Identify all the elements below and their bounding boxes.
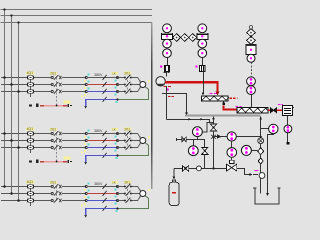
suction bottom line <box>167 120 214 123</box>
cooler box <box>283 105 295 115</box>
wire phase3 K2 to motor <box>131 143 140 148</box>
fuse F2 K3 <box>27 192 33 195</box>
valve stem <box>231 158 233 164</box>
stub FI-1 <box>251 150 257 152</box>
coupling diamond 1 <box>173 34 181 42</box>
stack stem P-A <box>167 58 169 66</box>
motor M K1 <box>140 82 146 88</box>
line TI-3 to tank <box>268 134 274 194</box>
open end tick <box>176 138 178 141</box>
label V-1 magenta <box>278 104 283 106</box>
node dots left K2 <box>85 132 87 148</box>
knot junction <box>211 135 216 139</box>
labels contactor K1 <box>112 71 131 75</box>
instrument FI-1 <box>241 145 251 155</box>
tank <box>253 188 280 204</box>
earth arrow K3 <box>84 215 87 218</box>
earth tags K2 <box>81 151 118 159</box>
wire phase2 K1 to node <box>66 84 86 86</box>
fan symbol <box>258 138 264 144</box>
breaker linkage dashed K2 <box>56 134 58 162</box>
elbow PA-1 down <box>197 137 199 140</box>
label breaker K1 <box>50 72 58 75</box>
wire phase3 K2 left segment <box>1 147 27 149</box>
earth tags K1 <box>81 95 118 103</box>
pipe red discharge <box>165 82 217 92</box>
wire phase1 K3 left segment <box>1 186 27 188</box>
bus riser L1 <box>4 10 6 187</box>
motor stack circle top P-B <box>198 24 207 33</box>
breaker pole 2 K2 <box>51 138 66 143</box>
contact 1 K2 <box>118 131 132 136</box>
node tags right K3 <box>115 188 117 204</box>
fuse link bar K3 <box>30 187 32 207</box>
wire phase2 K1 mid segment <box>34 84 51 86</box>
wire phase2 K1 to motor <box>131 84 139 86</box>
svg-text:2K1: 2K1 <box>124 127 130 131</box>
wire phase2 K3 to node <box>66 193 86 195</box>
breaker pole 3 K2 <box>51 145 66 150</box>
coil glyph left K1 <box>29 104 38 107</box>
accumulator ball <box>247 54 255 62</box>
node tags right K2 <box>115 135 117 151</box>
linkage dot K2 <box>56 161 58 163</box>
wire phase3 K1 to node <box>66 91 86 93</box>
inline circle valve <box>197 166 202 171</box>
contact 3 K2 <box>118 145 132 150</box>
label magenta above pipe <box>235 106 241 108</box>
wire phase2 K2 to motor <box>131 140 139 142</box>
wire phase3 K3 left segment <box>1 200 27 202</box>
flow arrow on suction line 1 <box>188 118 191 121</box>
earth node dot K1 <box>116 98 118 100</box>
earth wire green K2 <box>118 143 149 156</box>
node dots right K2 <box>116 132 118 148</box>
magenta label bottom <box>255 170 259 172</box>
breaker pole 3 K3 <box>51 198 66 203</box>
wire phase1 K2 colored segment <box>87 133 117 135</box>
end cap square <box>287 142 290 145</box>
wire phase3 K3 to node <box>66 200 86 202</box>
cooler drop line <box>287 116 289 125</box>
breaker linkage dashed K1 <box>56 78 58 106</box>
valve diamond 1 <box>258 148 264 155</box>
svg-text:380V: 380V <box>94 182 103 186</box>
node L3 tap <box>17 21 19 23</box>
control line coil K1 <box>40 105 67 107</box>
motor stack frame P-B <box>197 33 208 39</box>
wire phase3 K3 to motor <box>131 196 140 201</box>
motor stack frame P-A <box>162 33 173 39</box>
wire phase2 K2 mid segment <box>34 140 51 142</box>
svg-text:4Q1: 4Q1 <box>27 127 34 131</box>
pump column A <box>0 0 1 1</box>
earth wire blue K1 <box>86 100 118 107</box>
line knot to FA-1 <box>214 136 228 138</box>
coupling line diamonds <box>173 37 197 39</box>
vent circle top <box>249 26 252 29</box>
bus line L2 <box>1 15 152 17</box>
stub FA-1 down <box>231 141 233 147</box>
label dot P-A <box>160 65 162 67</box>
breaker pole 1 K3 <box>51 184 66 189</box>
control line coil K2 <box>40 161 67 163</box>
safety diamond 1 <box>247 29 256 37</box>
wire phase1 K2 mid segment <box>34 133 51 135</box>
filter L-01 <box>202 96 230 101</box>
svg-text:1K: 1K <box>112 180 116 184</box>
svg-text:2K1: 2K1 <box>124 71 130 75</box>
coupling diamond 2 <box>181 34 189 42</box>
label dot P-B <box>195 65 197 67</box>
up arrow at header <box>212 117 215 120</box>
contact 2 K2 <box>118 138 132 143</box>
label fuse K1 <box>26 72 35 75</box>
terminal box P-B <box>200 66 205 72</box>
tee to instrument PA-2 <box>193 139 195 145</box>
wire phase2 K2 to node <box>66 140 86 142</box>
wire phase1 K3 to motor <box>131 187 140 192</box>
main vertical from header <box>213 117 215 125</box>
motor tag K1 <box>148 80 150 82</box>
label coil K2 <box>64 157 71 160</box>
branch circuit 1 <box>0 0 1 1</box>
fuse F1 K2 <box>27 132 33 135</box>
wire phase3 K1 mid segment <box>34 91 51 93</box>
label M1 red <box>163 86 171 88</box>
coil glyph right K2 <box>67 160 71 163</box>
valve diamond 2 <box>258 158 263 164</box>
earth wire green K1 <box>118 87 149 100</box>
branch to instrument TI-3 <box>261 128 269 130</box>
valve circle <box>259 173 265 179</box>
label coil K1 <box>64 101 71 104</box>
earth arrow K2 <box>84 162 87 165</box>
pipe red to heater <box>224 105 238 109</box>
linkage dot K1 <box>56 105 58 107</box>
breaker pole 1 K1 <box>51 75 66 80</box>
chain segment <box>260 144 262 148</box>
pump column B <box>0 0 1 1</box>
fuse F2 K1 <box>27 83 33 86</box>
fuse F3 K2 <box>27 146 33 149</box>
safety diamond 2 <box>247 37 256 45</box>
bus tap dots K3 <box>3 185 20 202</box>
wire phase2 K3 left segment <box>1 193 27 195</box>
chain segment 3 <box>260 164 262 174</box>
wire phase1 K2 to node <box>66 133 86 135</box>
labels contactor K3 <box>112 180 131 184</box>
fuse F1 K3 <box>27 185 33 188</box>
wire phase1 K1 left segment <box>1 77 27 79</box>
wire phase1 K1 to motor <box>131 78 140 83</box>
red dashes right of filter <box>229 97 237 99</box>
gas bottle <box>169 180 179 206</box>
contactor linkage dashed K3 <box>127 186 129 202</box>
wire phase1 K1 to node <box>66 77 86 79</box>
cap line <box>287 133 289 142</box>
pump suction line <box>166 86 168 120</box>
wire phase1 K1 colored segment <box>87 77 117 79</box>
valve V-1 bowtie <box>270 108 276 114</box>
hourglass valve B <box>211 124 217 131</box>
instrument TI-5 <box>284 125 292 133</box>
contact 1 K1 <box>118 75 132 80</box>
motor stack circle low P-B <box>198 49 207 58</box>
breaker linkage dashed K3 <box>56 187 58 201</box>
drop line right 2 <box>204 154 206 168</box>
vertical to knot <box>213 131 215 168</box>
wire phase1 K1 mid segment <box>34 77 51 79</box>
label breaker K2 <box>50 128 58 131</box>
labels contactor K2 <box>112 127 131 131</box>
flow arrow on suction line 2 <box>200 118 203 121</box>
contact 3 K1 <box>118 89 132 94</box>
chain line from header end <box>260 116 262 137</box>
node tags K3 <box>84 183 89 206</box>
svg-text:4Q1: 4Q1 <box>27 180 34 184</box>
bus tap dots K2 <box>3 132 20 149</box>
valve tick on suction <box>162 93 171 95</box>
svg-text:2K1: 2K1 <box>124 180 130 184</box>
fuse F3 K1 <box>27 90 33 93</box>
pump ball P1 <box>156 77 165 86</box>
isolator slashes K2 <box>103 131 107 158</box>
earth wire blue K3 <box>86 209 118 216</box>
bottle feed elbow <box>173 168 175 176</box>
pipe red heater to valve <box>268 109 270 111</box>
wire phase1 K3 colored segment <box>87 186 117 188</box>
label fuse K2 <box>26 128 35 131</box>
breaker pole 2 K1 <box>51 82 66 87</box>
drop line right <box>204 139 206 147</box>
bottom process line <box>174 168 227 170</box>
earth tags K3 <box>81 204 118 212</box>
line to heater top <box>251 95 253 108</box>
bus riser L2 <box>11 16 13 194</box>
svg-text:380V: 380V <box>94 129 103 133</box>
arrow to valve circle <box>250 173 253 176</box>
chain into tank <box>260 178 262 193</box>
wire phase3 K1 blue segment <box>87 91 117 93</box>
heater L-02 <box>237 107 268 113</box>
fuse link bar K2 <box>30 134 32 154</box>
coupling diamond 3 <box>189 34 197 42</box>
wire phase2 K1 red segment <box>87 84 117 86</box>
wire phase2 K3 to motor <box>131 193 139 195</box>
breaker pole 2 K3 <box>51 191 66 196</box>
svg-text:2Q1: 2Q1 <box>50 71 56 75</box>
svg-text:2Q1: 2Q1 <box>50 127 56 131</box>
wire phase1 K2 to motor <box>131 134 140 139</box>
wire phase3 K1 left segment <box>1 91 27 93</box>
motor stack circle mid P-B <box>198 39 207 48</box>
node dots right K1 <box>116 76 118 92</box>
label breaker K3 <box>50 181 58 184</box>
svg-text:4Q1: 4Q1 <box>27 71 34 75</box>
sense line <box>251 62 253 77</box>
instrument PA-2 <box>188 146 198 156</box>
bottom line right segment <box>237 169 250 175</box>
isolator slashes K1 <box>103 75 107 102</box>
flow arrow symbol <box>218 135 222 138</box>
wire phase3 K2 blue segment <box>87 147 117 149</box>
node dots left K1 <box>85 76 87 92</box>
filter drain stub <box>223 101 225 103</box>
line arrow to valve circle 2 <box>253 174 258 176</box>
instrument FA-2 <box>227 148 237 158</box>
bus line L3 <box>1 22 152 24</box>
fuse F2 K2 <box>27 139 33 142</box>
coil glyph right K1 <box>67 104 71 107</box>
node L2 tap <box>10 14 12 16</box>
breaker pole 3 K1 <box>51 89 66 94</box>
motor tag K3 <box>148 189 150 191</box>
breaker pole 1 K2 <box>51 131 66 136</box>
arrow from pump B into filter <box>202 72 205 96</box>
bus tap dots K1 <box>3 76 20 93</box>
node dots right K3 <box>116 185 118 201</box>
wire phase2 K3 red segment <box>87 193 117 195</box>
contactor linkage dashed K1 <box>127 77 129 93</box>
contactor linkage dashed K2 <box>127 133 129 149</box>
motor stack circle mid P-A <box>163 39 172 48</box>
junction dot chain <box>260 136 262 138</box>
wire phase3 K1 to motor <box>131 87 140 92</box>
wire phase2 K2 left segment <box>1 140 27 142</box>
isolator slashes K3 <box>103 184 107 211</box>
earth wire blue K2 <box>86 156 118 163</box>
fuse F3 K3 <box>27 199 33 202</box>
fuse F1 K1 <box>27 76 33 79</box>
svg-text:1K: 1K <box>112 127 116 131</box>
valve bowtie small <box>182 137 186 142</box>
wire phase3 K2 to node <box>66 147 86 149</box>
motor M K3 <box>140 191 146 197</box>
line FA-1 to chain <box>236 136 260 138</box>
riser to PA-1 <box>202 123 209 133</box>
earth wire green K3 <box>118 196 149 209</box>
stack stem P-B <box>202 58 204 66</box>
valve with dot <box>182 166 188 172</box>
svg-text:2Q1: 2Q1 <box>50 180 56 184</box>
node dots left K3 <box>85 185 87 201</box>
coil glyph left K2 <box>29 160 38 163</box>
wire phase1 K3 mid segment <box>34 186 51 188</box>
instrument TI-3 <box>269 124 278 133</box>
hourglass valve A <box>202 147 208 154</box>
label L-01 magenta <box>210 93 217 95</box>
motor tag K2 <box>148 136 150 138</box>
earth node dot K3 <box>116 207 118 209</box>
contact 2 K1 <box>118 82 132 87</box>
sample line horizontal <box>177 139 205 141</box>
control valve bowtie <box>227 164 237 171</box>
junction square <box>222 103 225 106</box>
instrument FA-1 <box>227 132 236 141</box>
arrow into bottle <box>173 176 176 179</box>
bus line L1 <box>1 9 152 11</box>
red dashes on suction <box>168 96 175 98</box>
arrow into tank <box>266 193 269 196</box>
terminal box P-A <box>164 66 169 72</box>
chain segment 2 <box>260 155 262 158</box>
tee dot bottom line <box>212 167 214 169</box>
node L1 tap <box>3 8 5 10</box>
bypass arrow down <box>185 112 188 115</box>
contact 3 K3 <box>118 198 132 203</box>
node tags right K1 <box>115 79 117 95</box>
up arrow at header end <box>259 116 262 119</box>
svg-text:380V: 380V <box>94 73 103 77</box>
pump A drop line <box>166 72 168 77</box>
wire phase2 K2 red segment <box>87 140 117 142</box>
wire phase1 K2 left segment <box>1 133 27 135</box>
contact 2 K3 <box>118 191 132 196</box>
wire phase2 K3 mid segment <box>34 193 51 195</box>
instrument PI-1 <box>247 77 256 86</box>
red arrow into filter <box>216 92 220 96</box>
node tags K1 <box>84 74 89 97</box>
earth arrow K1 <box>84 106 87 109</box>
magenta dot below pump <box>166 88 168 90</box>
wire phase1 K3 to node <box>66 186 86 188</box>
pump label ticks <box>164 72 170 74</box>
pipe red valve to cooler <box>277 109 283 111</box>
instrument PA-1 <box>193 127 203 137</box>
instrument PI-2 <box>247 86 256 95</box>
wire phase3 K3 blue segment <box>87 200 117 202</box>
motor stack circle top P-A <box>163 24 172 33</box>
wire phase3 K3 mid segment <box>34 200 51 202</box>
earth node dot K2 <box>116 154 118 156</box>
wire phase3 K2 mid segment <box>34 147 51 149</box>
motor M K2 <box>140 138 146 144</box>
node tags K2 <box>84 130 89 153</box>
svg-text:1K: 1K <box>112 71 116 75</box>
return header thick gray <box>185 115 261 117</box>
accumulator box <box>246 44 256 54</box>
fuse link bar K1 <box>30 78 32 98</box>
motor stack circle low P-A <box>163 49 172 58</box>
contact 1 K3 <box>118 184 132 189</box>
bus riser L3 <box>18 23 20 201</box>
actuator box <box>230 160 234 163</box>
bypass line <box>167 94 187 113</box>
wire phase2 K1 left segment <box>1 84 27 86</box>
label fuse K3 <box>26 181 35 184</box>
